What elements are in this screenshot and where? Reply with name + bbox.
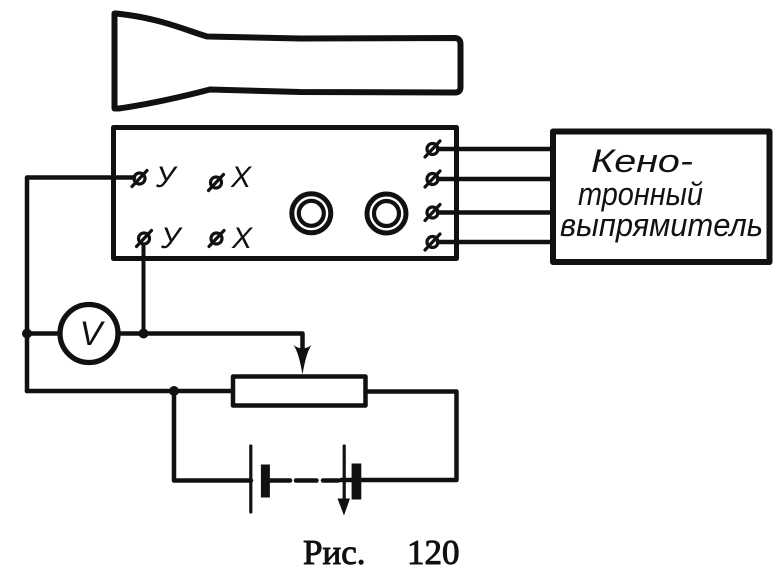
output terminal 3 [425,205,440,221]
wire dash 1 [296,478,317,483]
kenotron rectifier box [553,132,770,263]
output terminal 2 [425,171,440,187]
node junction battery tap [169,386,179,396]
wire bottom bus [27,389,233,394]
svg-text:Х: Х [230,161,252,194]
wire terminal3 to rectifier [438,210,552,215]
wire Y2 terminal down to junction [142,245,146,334]
kenotron rectifier label [560,143,763,243]
wire battery stub [270,478,290,483]
wire dash 2 [323,478,338,483]
output terminal 1 [425,141,440,157]
svg-text:выпрямитель: выпрямитель [560,207,763,243]
node junction left bus / voltmeter [22,329,32,339]
battery cell 2 short electrode [352,464,362,500]
battery cell 2 long electrode with tap arrow [338,446,351,516]
wire left bus to voltmeter [27,331,59,336]
svg-text:У: У [155,161,178,194]
wire terminal4 to rectifier [438,240,552,245]
svg-text:Х: Х [231,222,253,255]
svg-text:Рис.: Рис. [303,533,365,572]
voltmeter V [60,305,118,363]
svg-text:Кено-: Кено- [591,143,693,179]
wire junction down to battery [174,391,251,481]
wire potentiometer right to battery [362,392,457,481]
output terminal 4 [425,234,440,250]
socket 1 (double circle) [292,194,331,233]
wire terminal1 to rectifier [438,147,552,152]
battery cell 1 short electrode [261,465,270,498]
socket 2 (double circle) [367,194,406,233]
CRT tube (cathode-ray tube outline) [115,14,461,109]
svg-text:120: 120 [407,533,460,572]
battery cell 1 long electrode [249,446,252,512]
wire to cell 2 [341,478,352,483]
caption Fig. 120 [303,533,460,572]
wire terminal2 to rectifier [438,177,552,182]
terminal Y1 (upper) [132,171,147,187]
svg-text:У: У [160,222,183,255]
node junction Y2 wire [139,329,149,339]
potentiometer R [233,377,366,406]
terminal Y2 (lower) [137,231,152,247]
svg-text:V: V [80,315,106,353]
terminal X1 (upper) [209,175,224,191]
wire Y1 to left bus [27,178,134,392]
wire voltmeter to wiper corner [120,334,303,357]
wiper arrow onto potentiometer [294,345,312,375]
terminal X2 (lower) [209,231,224,247]
oscilloscope panel box [114,128,457,259]
